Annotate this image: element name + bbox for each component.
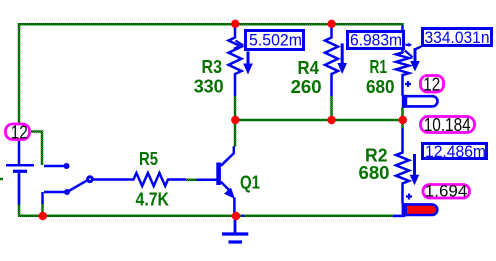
svg-text:4.7K: 4.7K xyxy=(136,190,170,210)
svg-text:12: 12 xyxy=(11,121,28,142)
svg-text:5.502m: 5.502m xyxy=(249,31,302,50)
svg-text:R4: R4 xyxy=(298,58,320,78)
svg-text:R1: R1 xyxy=(370,57,388,77)
svg-text:260: 260 xyxy=(291,77,322,97)
svg-text:334.031n: 334.031n xyxy=(425,28,490,47)
svg-text:1.694: 1.694 xyxy=(425,182,468,201)
svg-text:R5: R5 xyxy=(139,149,158,169)
svg-text:6.983m: 6.983m xyxy=(350,31,402,50)
svg-text:680: 680 xyxy=(366,77,395,97)
svg-text:Q1: Q1 xyxy=(240,173,260,193)
svg-text:10.184: 10.184 xyxy=(424,114,471,135)
svg-text:330: 330 xyxy=(194,77,224,97)
svg-text:12.486m: 12.486m xyxy=(425,142,486,161)
svg-text:12: 12 xyxy=(423,74,440,95)
svg-text:R3: R3 xyxy=(202,57,223,77)
svg-text:680: 680 xyxy=(359,163,390,183)
